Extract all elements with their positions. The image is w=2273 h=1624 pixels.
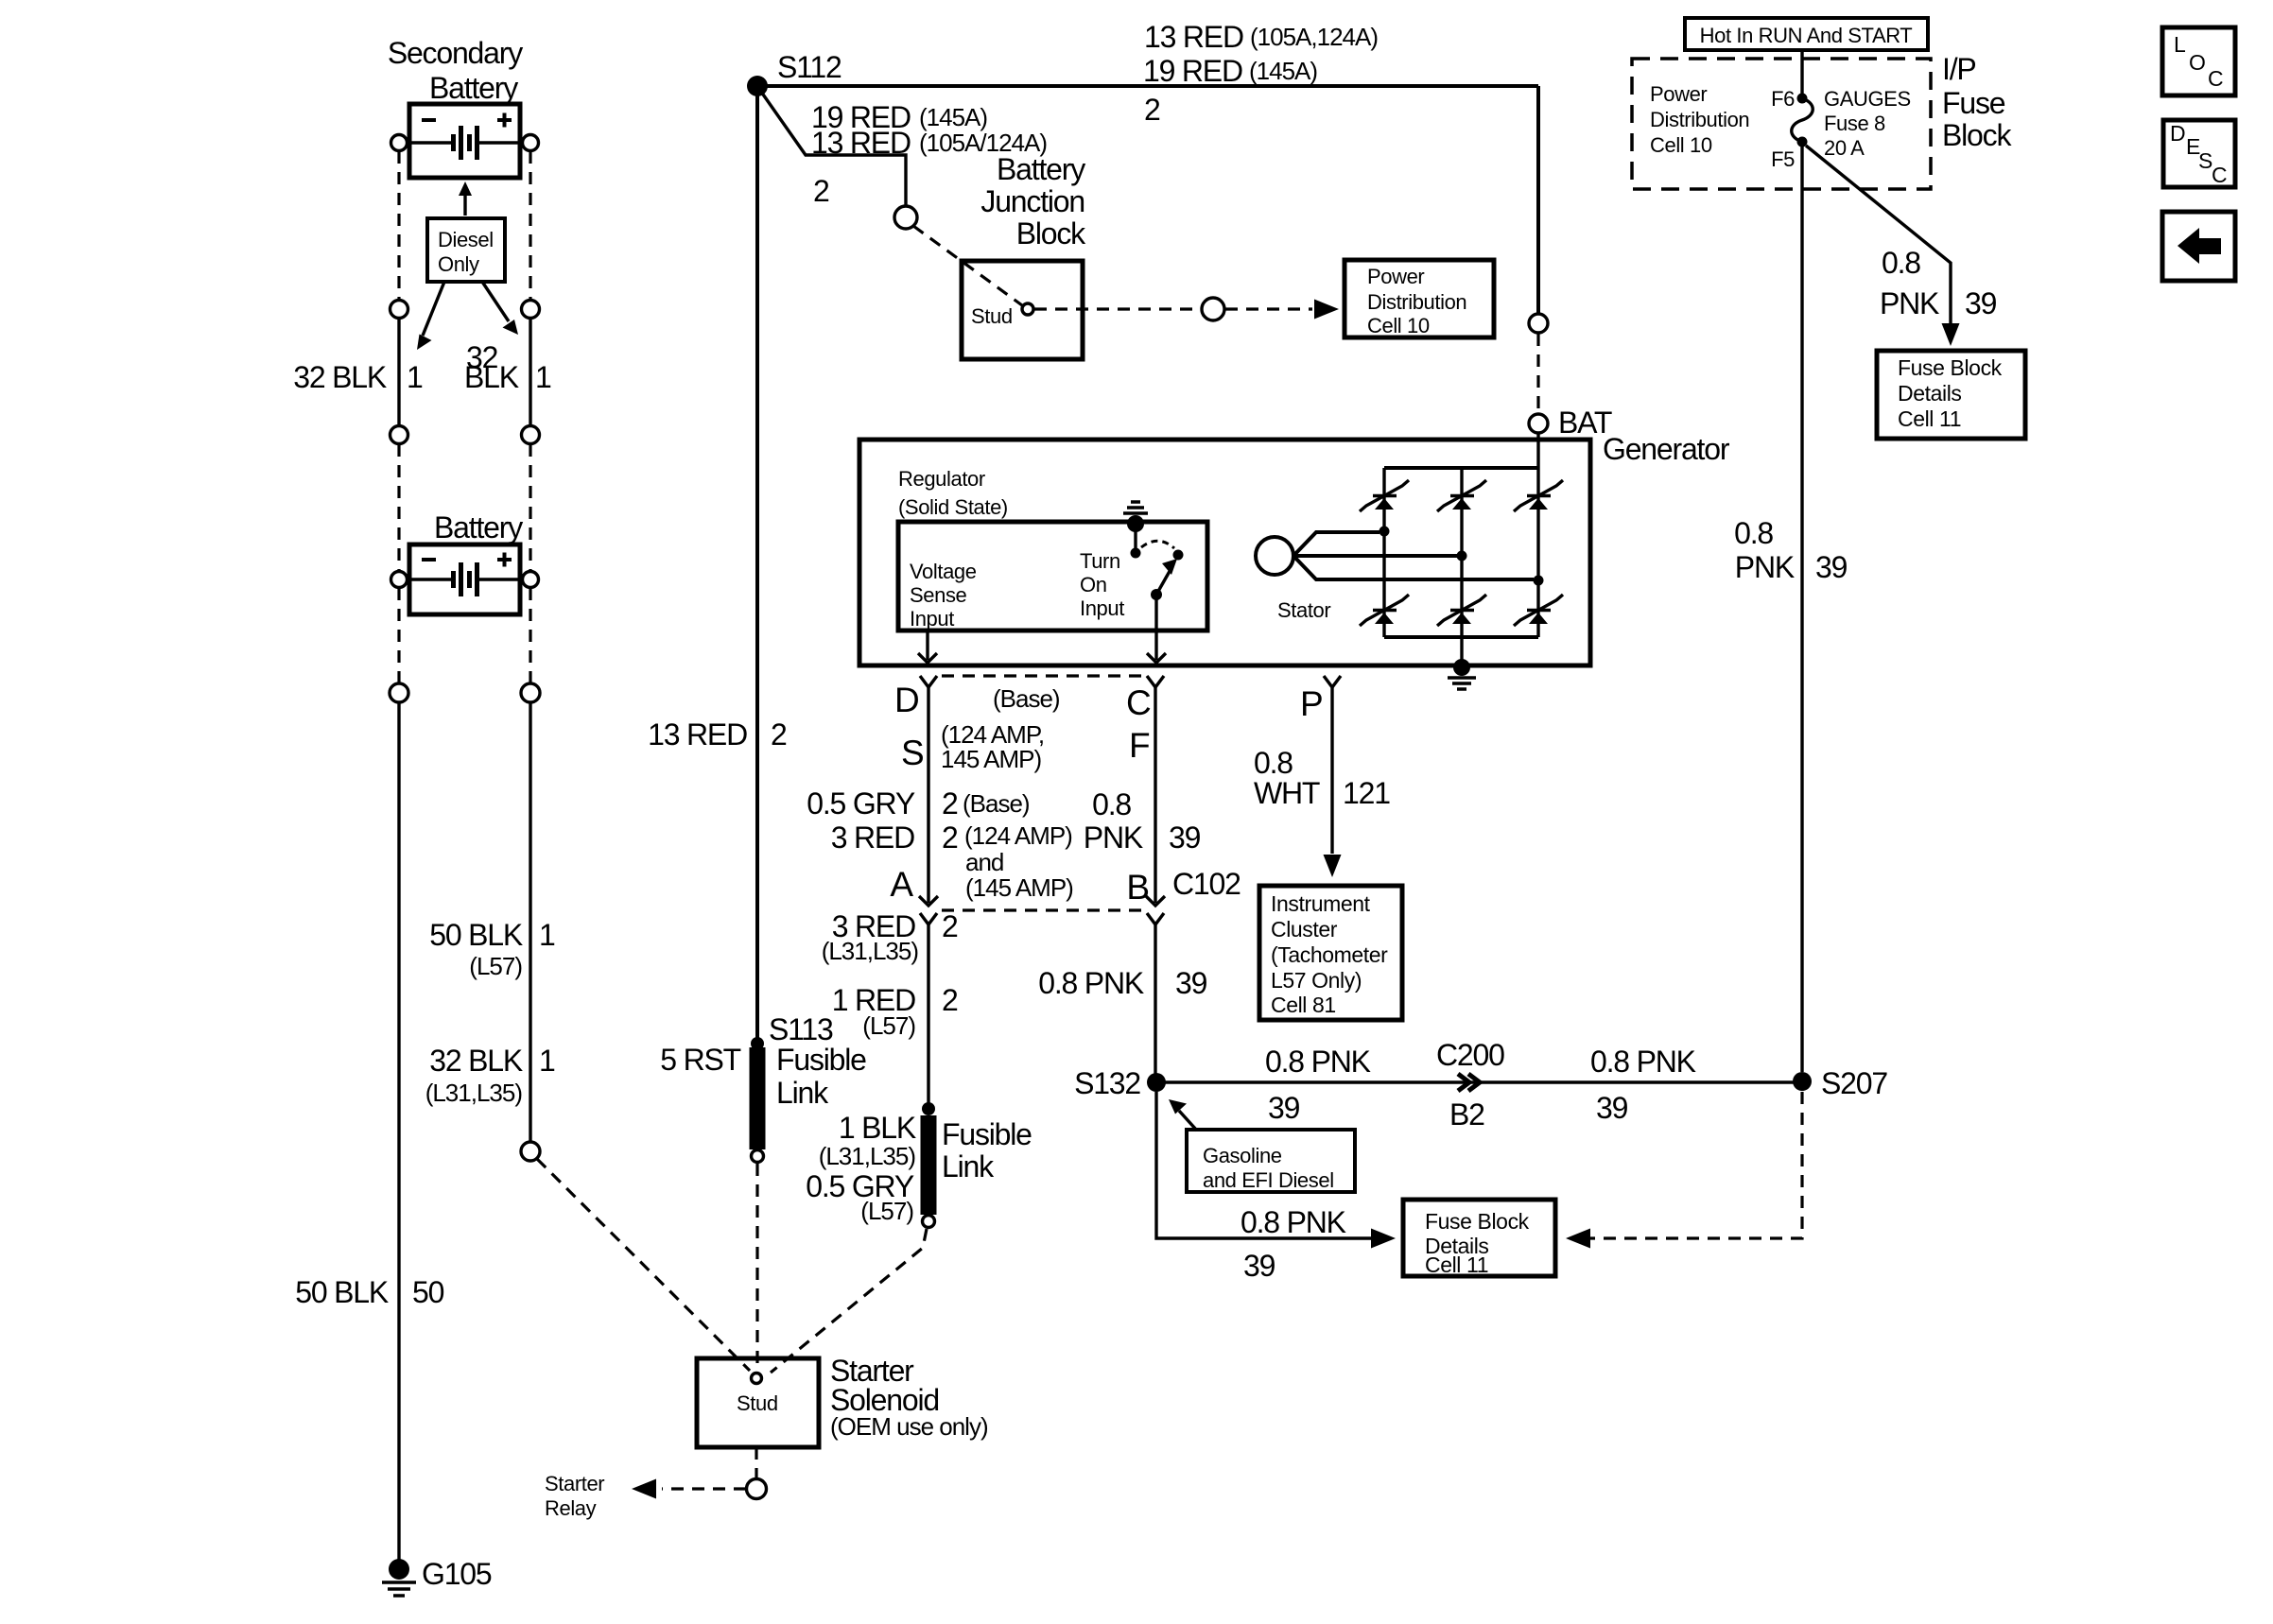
svg-text:WHT: WHT: [1254, 776, 1320, 810]
svg-text:Fuse Block: Fuse Block: [1898, 355, 2003, 380]
svg-text:1: 1: [539, 918, 555, 952]
svg-text:(L31,L35): (L31,L35): [822, 937, 919, 965]
svg-text:S112: S112: [777, 50, 842, 84]
svg-text:Secondary: Secondary: [388, 36, 523, 70]
svg-text:2: 2: [942, 909, 958, 943]
svg-text:(Solid State): (Solid State): [898, 495, 1008, 519]
svg-text:Only: Only: [438, 252, 479, 276]
svg-text:39: 39: [1169, 821, 1201, 855]
svg-text:(145A): (145A): [1249, 57, 1317, 85]
svg-text:Voltage: Voltage: [910, 560, 977, 583]
svg-text:S: S: [2198, 148, 2212, 173]
svg-text:32 BLK: 32 BLK: [293, 360, 387, 394]
svg-text:2: 2: [771, 717, 787, 752]
svg-text:Distribution: Distribution: [1367, 290, 1466, 314]
svg-text:Cell 10: Cell 10: [1650, 133, 1712, 157]
svg-text:L: L: [2174, 32, 2186, 57]
svg-text:Battery: Battery: [434, 510, 523, 544]
svg-text:13 RED: 13 RED: [648, 717, 747, 752]
svg-text:Link: Link: [776, 1076, 829, 1110]
svg-text:1 BLK: 1 BLK: [839, 1111, 916, 1145]
svg-text:(OEM use only): (OEM use only): [830, 1412, 988, 1441]
svg-text:(L57): (L57): [469, 952, 522, 980]
svg-text:BLK: BLK: [464, 360, 519, 394]
svg-text:Fuse 8: Fuse 8: [1824, 112, 1885, 135]
svg-text:121: 121: [1343, 776, 1390, 810]
svg-text:Battery: Battery: [997, 152, 1085, 186]
svg-text:0.8 PNK: 0.8 PNK: [1241, 1205, 1346, 1239]
svg-text:Stator: Stator: [1277, 598, 1330, 622]
svg-text:2: 2: [813, 174, 829, 208]
svg-text:1: 1: [539, 1044, 555, 1078]
svg-text:S113: S113: [769, 1012, 833, 1046]
svg-text:0.8 PNK: 0.8 PNK: [1590, 1045, 1696, 1079]
svg-text:S132: S132: [1074, 1066, 1140, 1100]
svg-text:Distribution: Distribution: [1650, 108, 1749, 131]
svg-text:PNK: PNK: [1880, 286, 1939, 320]
svg-text:Power: Power: [1650, 82, 1707, 106]
svg-text:(145 AMP): (145 AMP): [965, 873, 1073, 902]
svg-text:20 A: 20 A: [1824, 136, 1865, 160]
svg-text:PNK: PNK: [1084, 821, 1143, 855]
svg-text:Instrument: Instrument: [1271, 891, 1371, 916]
svg-text:19 RED: 19 RED: [1143, 54, 1242, 88]
svg-text:5 RST: 5 RST: [660, 1043, 740, 1077]
svg-text:(L31,L35): (L31,L35): [819, 1142, 916, 1170]
svg-text:Cell 11: Cell 11: [1425, 1253, 1488, 1277]
svg-text:(L31,L35): (L31,L35): [425, 1079, 523, 1107]
svg-text:Block: Block: [1016, 216, 1086, 251]
svg-text:C: C: [2212, 163, 2227, 187]
svg-text:32 BLK: 32 BLK: [429, 1044, 523, 1078]
svg-text:F: F: [1129, 726, 1150, 765]
svg-text:and: and: [965, 848, 1003, 876]
svg-text:2: 2: [1144, 93, 1160, 127]
svg-text:F6: F6: [1771, 87, 1795, 111]
svg-text:A: A: [890, 865, 913, 904]
svg-text:C200: C200: [1436, 1038, 1504, 1072]
svg-text:and EFI Diesel: and EFI Diesel: [1203, 1168, 1334, 1192]
svg-text:39: 39: [1815, 550, 1848, 584]
svg-text:B2: B2: [1449, 1097, 1484, 1132]
svg-text:145 AMP): 145 AMP): [941, 745, 1042, 773]
svg-text:50 BLK: 50 BLK: [429, 918, 523, 952]
svg-text:1: 1: [535, 360, 551, 394]
svg-text:Turn: Turn: [1080, 549, 1120, 573]
svg-text:GAUGES: GAUGES: [1824, 87, 1911, 111]
svg-text:Battery: Battery: [429, 71, 518, 105]
svg-text:39: 39: [1965, 286, 1997, 320]
svg-text:0.8: 0.8: [1734, 516, 1773, 550]
svg-text:PNK: PNK: [1735, 550, 1795, 584]
svg-text:O: O: [2189, 50, 2206, 75]
svg-text:39: 39: [1268, 1091, 1300, 1125]
svg-text:Diesel: Diesel: [438, 228, 494, 251]
svg-text:Regulator: Regulator: [898, 467, 985, 491]
svg-text:B: B: [1126, 868, 1149, 907]
svg-text:F5: F5: [1771, 147, 1795, 171]
svg-text:Cell 81: Cell 81: [1271, 993, 1336, 1017]
svg-text:Block: Block: [1942, 118, 2012, 152]
svg-text:Sense: Sense: [910, 583, 967, 607]
svg-text:2: 2: [942, 786, 958, 821]
svg-text:On: On: [1080, 573, 1107, 596]
svg-text:2: 2: [942, 983, 958, 1017]
svg-text:(Tachometer: (Tachometer: [1271, 942, 1388, 967]
svg-text:2: 2: [942, 821, 958, 855]
svg-text:(124 AMP): (124 AMP): [964, 821, 1072, 850]
svg-text:C: C: [1126, 683, 1151, 722]
svg-text:G105: G105: [422, 1557, 492, 1591]
svg-text:13 RED: 13 RED: [1144, 20, 1243, 54]
svg-text:C102: C102: [1172, 867, 1241, 901]
svg-text:0.8 PNK: 0.8 PNK: [1265, 1045, 1371, 1079]
svg-text:0.8: 0.8: [1092, 787, 1131, 821]
svg-text:Input: Input: [910, 607, 954, 631]
svg-text:39: 39: [1596, 1091, 1628, 1125]
svg-text:50: 50: [412, 1275, 444, 1309]
svg-text:S207: S207: [1821, 1066, 1887, 1100]
svg-text:0.8 PNK: 0.8 PNK: [1038, 966, 1144, 1000]
svg-text:S: S: [901, 734, 924, 772]
svg-text:Junction: Junction: [980, 184, 1084, 218]
svg-text:D: D: [894, 681, 919, 719]
svg-text:D: D: [2170, 121, 2185, 146]
svg-text:(Base): (Base): [993, 684, 1060, 713]
svg-text:Fusible: Fusible: [776, 1043, 866, 1077]
svg-text:0.5 GRY: 0.5 GRY: [807, 786, 915, 821]
svg-text:Link: Link: [942, 1149, 995, 1183]
svg-text:(L57): (L57): [862, 1011, 915, 1040]
svg-text:(105A,124A): (105A,124A): [1250, 23, 1378, 51]
svg-text:Input: Input: [1080, 596, 1124, 620]
svg-text:3 RED: 3 RED: [831, 821, 914, 855]
svg-text:I/P: I/P: [1942, 52, 1976, 86]
svg-text:50 BLK: 50 BLK: [295, 1275, 389, 1309]
svg-text:0.8: 0.8: [1254, 746, 1293, 780]
svg-text:Gasoline: Gasoline: [1203, 1144, 1282, 1167]
svg-text:C: C: [2208, 66, 2223, 91]
svg-text:Fuse Block: Fuse Block: [1425, 1209, 1530, 1234]
svg-text:Stud: Stud: [971, 304, 1013, 328]
svg-text:Cluster: Cluster: [1271, 917, 1338, 942]
svg-text:13 RED: 13 RED: [811, 126, 911, 160]
svg-text:39: 39: [1175, 966, 1207, 1000]
svg-text:Stud: Stud: [737, 1391, 778, 1415]
svg-text:Hot In RUN And START: Hot In RUN And START: [1700, 24, 1913, 47]
svg-text:Cell 11: Cell 11: [1898, 406, 1961, 431]
svg-text:Fuse: Fuse: [1942, 86, 2005, 120]
svg-text:(Base): (Base): [963, 789, 1030, 818]
svg-text:Fusible: Fusible: [942, 1117, 1032, 1151]
svg-text:Relay: Relay: [545, 1496, 597, 1520]
svg-text:39: 39: [1243, 1249, 1275, 1283]
svg-text:(145A): (145A): [919, 103, 987, 131]
svg-text:0.8: 0.8: [1882, 246, 1920, 280]
svg-text:Starter: Starter: [545, 1472, 604, 1495]
svg-text:Power: Power: [1367, 265, 1424, 288]
svg-text:Generator: Generator: [1603, 432, 1730, 466]
svg-text:Cell 10: Cell 10: [1367, 314, 1430, 337]
svg-text:Details: Details: [1898, 381, 1962, 406]
svg-text:L57 Only): L57 Only): [1271, 968, 1362, 993]
svg-text:(L57): (L57): [860, 1197, 913, 1225]
svg-text:1: 1: [407, 360, 423, 394]
svg-text:P: P: [1300, 684, 1323, 723]
